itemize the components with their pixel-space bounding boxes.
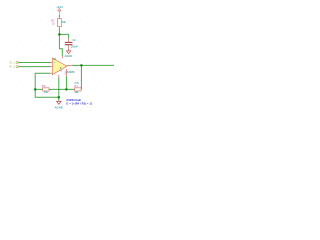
svg-text:S: S xyxy=(60,66,62,70)
svg-text:4: 4 xyxy=(61,71,63,73)
svg-text:AGND: AGND xyxy=(55,105,63,109)
svg-text:10k: 10k xyxy=(74,91,79,94)
svg-text:G = 1+(R4 / R3) = 11: G = 1+(R4 / R3) = 11 xyxy=(66,102,92,106)
svg-text:10k: 10k xyxy=(62,20,67,24)
svg-text:+12V: +12V xyxy=(56,5,63,9)
svg-text:100nF: 100nF xyxy=(71,46,79,49)
svg-text:C2: C2 xyxy=(73,39,77,42)
svg-text:1k: 1k xyxy=(52,22,55,26)
svg-text:10k: 10k xyxy=(44,91,49,94)
svg-text:AGND: AGND xyxy=(65,54,73,58)
svg-text:-: - xyxy=(54,65,55,68)
svg-text:LM386: LM386 xyxy=(65,70,75,74)
svg-text:R4: R4 xyxy=(74,84,78,88)
svg-text:R3: R3 xyxy=(42,84,46,88)
svg-text:AUDIO Gain: AUDIO Gain xyxy=(66,98,81,102)
svg-text:IN_2: IN_2 xyxy=(9,65,16,69)
